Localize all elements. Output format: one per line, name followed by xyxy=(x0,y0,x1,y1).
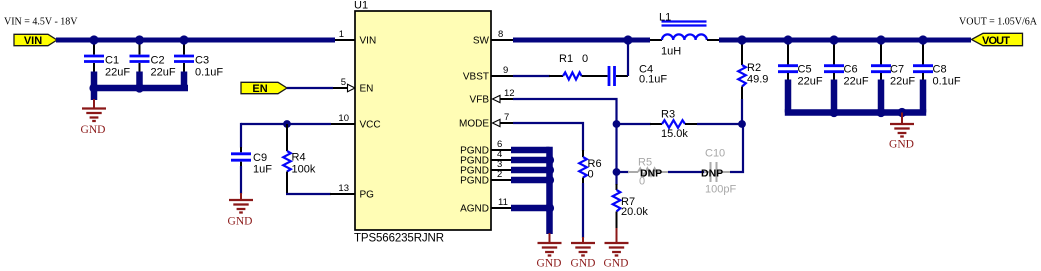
wire pin1 lead xyxy=(335,39,355,41)
capacitor C1 xyxy=(84,40,130,88)
ground PGND GND xyxy=(537,233,562,270)
svg-text:VFB: VFB xyxy=(470,95,490,106)
svg-text:VIN: VIN xyxy=(24,35,42,47)
node junction C3 top xyxy=(179,35,188,44)
node junction AGND xyxy=(545,203,554,212)
wire PG net xyxy=(286,193,331,195)
svg-text:EN: EN xyxy=(360,84,374,95)
wire PGND vertical bus xyxy=(546,147,553,234)
resistor R4 xyxy=(283,124,316,194)
svg-text:VOUT: VOUT xyxy=(982,35,1010,47)
svg-text:GND: GND xyxy=(889,139,914,151)
svg-text:PG: PG xyxy=(360,190,375,201)
ground C9 GND xyxy=(228,193,253,228)
svg-text:22uF: 22uF xyxy=(151,67,176,79)
capacitor C2 xyxy=(130,40,176,88)
wire C10 riser to R2 R3 node xyxy=(730,124,744,173)
svg-text:7: 7 xyxy=(504,112,509,123)
svg-text:49.9: 49.9 xyxy=(747,74,768,86)
wire VFB pin12 lead xyxy=(496,98,514,100)
resistor R6 xyxy=(579,150,601,238)
capacitor C6 xyxy=(824,44,869,113)
wire gnd stem xyxy=(91,88,98,100)
svg-text:SW: SW xyxy=(473,36,490,47)
wire AGND pin11 thick xyxy=(511,205,550,212)
svg-text:0.1uF: 0.1uF xyxy=(195,67,223,79)
capacitor C7 xyxy=(871,44,915,113)
ground R6 GND xyxy=(571,237,596,270)
svg-text:TPS566235RJNR: TPS566235RJNR xyxy=(354,233,444,245)
svg-text:U1: U1 xyxy=(354,0,368,12)
svg-text:100k: 100k xyxy=(292,164,316,176)
pin arrow MODE xyxy=(493,119,501,126)
wire L1 left lead xyxy=(650,39,662,41)
svg-text:MODE: MODE xyxy=(459,119,489,130)
svg-text:5: 5 xyxy=(341,77,346,88)
svg-text:8: 8 xyxy=(498,29,503,40)
svg-text:C1: C1 xyxy=(105,55,119,67)
svg-text:12: 12 xyxy=(504,88,515,99)
ground input GND xyxy=(81,99,106,136)
svg-text:R2: R2 xyxy=(747,62,761,74)
wire VIN main input net xyxy=(56,38,335,43)
capacitor C8 xyxy=(913,44,961,113)
svg-text:L1: L1 xyxy=(659,12,671,24)
svg-text:VOUT = 1.05V/6A: VOUT = 1.05V/6A xyxy=(959,17,1038,28)
svg-text:VBST: VBST xyxy=(463,72,489,83)
node junction gnd bus xyxy=(897,108,906,117)
node junction VFB R5 row xyxy=(613,168,621,176)
svg-text:C3: C3 xyxy=(195,55,209,67)
port tag EN xyxy=(241,82,287,95)
svg-text:R1: R1 xyxy=(559,53,573,65)
svg-text:VIN = 4.5V - 18V: VIN = 4.5V - 18V xyxy=(4,17,78,28)
inductor L1 xyxy=(659,12,707,58)
capacitor C5 xyxy=(778,44,823,113)
node junction R3 R2 xyxy=(738,120,746,128)
wire C4 riser to SW xyxy=(627,39,629,76)
capacitor C10 DNP xyxy=(701,148,736,196)
svg-text:1uH: 1uH xyxy=(661,46,681,58)
node junction C1 bus xyxy=(89,83,98,92)
svg-text:C9: C9 xyxy=(253,152,267,164)
ground output GND xyxy=(889,113,914,151)
wire MODE net xyxy=(513,122,584,151)
svg-text:11: 11 xyxy=(498,197,508,208)
port tag VOUT xyxy=(972,33,1023,47)
svg-text:22uF: 22uF xyxy=(798,76,823,88)
svg-text:10: 10 xyxy=(338,113,349,124)
wire PGND pin3 thick xyxy=(511,167,550,174)
svg-text:GND: GND xyxy=(228,216,253,228)
svg-text:1uF: 1uF xyxy=(253,164,272,176)
svg-text:0.1uF: 0.1uF xyxy=(933,76,961,88)
svg-text:DNP: DNP xyxy=(640,168,662,180)
pin arrow VFB xyxy=(493,95,501,102)
node junction C1 top xyxy=(89,35,98,44)
ground R7 GND xyxy=(604,228,629,270)
capacitor C3 xyxy=(174,40,223,88)
svg-text:C7: C7 xyxy=(890,64,904,76)
svg-text:R3: R3 xyxy=(661,109,675,121)
svg-text:9: 9 xyxy=(503,65,508,76)
node junction C6 top xyxy=(829,35,838,44)
svg-text:DNP: DNP xyxy=(701,168,723,180)
node junction C2 top xyxy=(135,35,144,44)
svg-text:15.0k: 15.0k xyxy=(661,128,688,140)
wire output ground bus xyxy=(785,109,926,116)
node junction C2 bus xyxy=(135,83,144,92)
wire PGND pin6 lead xyxy=(491,149,513,151)
node junction SW C4 xyxy=(623,35,632,44)
node junction C7 top xyxy=(876,35,885,44)
wire PGND pin6 thick xyxy=(511,147,550,154)
svg-text:C2: C2 xyxy=(151,55,165,67)
svg-text:GND: GND xyxy=(81,124,106,136)
capacitor C9 xyxy=(231,147,272,194)
svg-text:R4: R4 xyxy=(292,152,306,164)
node junction PGND4 xyxy=(545,155,554,164)
svg-text:C10: C10 xyxy=(705,148,725,160)
svg-text:GND: GND xyxy=(571,258,596,270)
node junction C6 bus xyxy=(829,108,838,117)
wire VBST pin9 lead xyxy=(491,75,514,77)
svg-text:0: 0 xyxy=(582,53,588,65)
svg-text:C8: C8 xyxy=(933,64,947,76)
wire VFB net xyxy=(513,98,618,173)
resistor R2 xyxy=(738,44,768,124)
svg-text:AGND: AGND xyxy=(460,204,489,215)
svg-text:GND: GND xyxy=(604,258,629,270)
resistor R3 xyxy=(617,109,743,141)
wire VOUT thick xyxy=(719,38,971,43)
wire input ground bus xyxy=(91,85,188,92)
wire EN net xyxy=(287,87,333,89)
port tag VIN xyxy=(14,34,57,47)
svg-text:20.0k: 20.0k xyxy=(621,206,648,218)
wire PGND pin2 thick xyxy=(511,177,550,184)
op-amp-style IC U1 TPS566235RJNR box xyxy=(354,0,491,245)
pin arrow EN input xyxy=(348,84,356,91)
svg-text:1: 1 xyxy=(339,29,344,40)
svg-text:0: 0 xyxy=(588,169,594,181)
wire R5 to C10 xyxy=(668,171,705,173)
svg-text:VCC: VCC xyxy=(360,120,381,131)
wire PGND pin3 lead xyxy=(491,169,513,171)
wire MODE pin7 lead xyxy=(496,122,514,124)
capacitor C4 xyxy=(609,64,667,87)
svg-text:EN: EN xyxy=(252,83,267,95)
wire VCC net xyxy=(330,123,355,125)
wire L1 right lead xyxy=(707,39,720,41)
wire PGND pin4 thick xyxy=(511,157,550,164)
svg-text:100pF: 100pF xyxy=(705,184,736,196)
wire PGND pin4 lead xyxy=(491,159,513,161)
svg-text:22uF: 22uF xyxy=(890,76,915,88)
svg-text:22uF: 22uF xyxy=(105,67,130,79)
resistor R7 xyxy=(613,171,649,229)
wire AGND pin11 lead xyxy=(491,207,513,209)
node junction C8 top xyxy=(918,35,927,44)
wire PGND pin2 lead xyxy=(491,179,513,181)
resistor R5 DNP xyxy=(617,157,670,188)
svg-text:13: 13 xyxy=(338,183,349,194)
node junction VFB R3 xyxy=(613,120,621,128)
wire VBST net xyxy=(513,75,550,77)
svg-text:C6: C6 xyxy=(844,64,858,76)
wire SW thick xyxy=(513,38,650,43)
svg-text:C5: C5 xyxy=(798,64,812,76)
node junction C7 bus xyxy=(876,108,885,117)
svg-text:22uF: 22uF xyxy=(844,76,869,88)
node junction VCC R4 xyxy=(283,120,291,128)
svg-text:PGND: PGND xyxy=(460,176,489,187)
node junction C5 top xyxy=(783,35,792,44)
node junction PGND2 xyxy=(545,175,554,184)
wire SW pin8 lead xyxy=(491,39,514,41)
svg-text:0.1uF: 0.1uF xyxy=(639,74,667,86)
resistor R1 xyxy=(549,53,608,80)
node junction R2 top xyxy=(737,35,746,44)
svg-text:VIN: VIN xyxy=(360,36,377,47)
svg-text:GND: GND xyxy=(537,258,562,270)
wire pin5 lead xyxy=(333,87,355,89)
node junction PGND3 xyxy=(545,165,554,174)
